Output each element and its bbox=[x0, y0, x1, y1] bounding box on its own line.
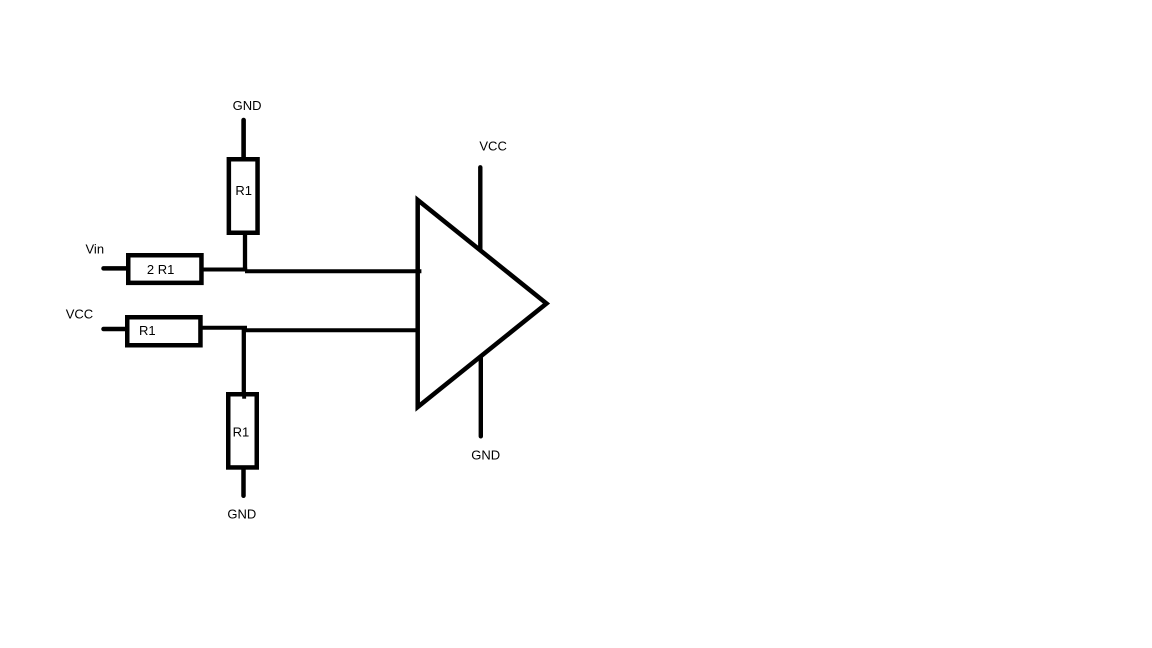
wire from left R1 to node B bbox=[202, 326, 247, 330]
wire from top GND to resistor R1 top bbox=[241, 120, 246, 158]
svg-text:R1: R1 bbox=[235, 183, 252, 198]
svg-text:R1: R1 bbox=[139, 323, 156, 338]
wire Vin stub bbox=[104, 266, 128, 271]
svg-text:2 R1: 2 R1 bbox=[147, 262, 174, 277]
wire from bottom resistor to bottom GND bbox=[241, 469, 246, 496]
svg-text:GND: GND bbox=[233, 98, 262, 113]
svg-text:Vin: Vin bbox=[86, 241, 105, 256]
resistor R1 (horizontal, left) bbox=[127, 317, 200, 345]
wire node B down to bottom resistor bbox=[242, 328, 246, 393]
wire VCC stub bbox=[104, 327, 127, 332]
wire node A to op-amp non-inverting input bbox=[245, 269, 421, 273]
resistor R1 (top vertical) bbox=[229, 159, 258, 233]
op-amp U1 (triangle) bbox=[418, 200, 547, 407]
resistor R1 (bottom vertical) bbox=[228, 394, 257, 467]
svg-text:R1: R1 bbox=[233, 424, 250, 439]
wire from 2 R1 to node A bbox=[203, 268, 247, 272]
svg-text:VCC: VCC bbox=[479, 138, 506, 153]
resistor 2 R1 (horizontal) bbox=[128, 255, 201, 283]
wire VCC supply to op-amp bbox=[478, 167, 482, 250]
svg-text:GND: GND bbox=[471, 448, 500, 463]
wire node B to op-amp inverting input bbox=[244, 328, 418, 332]
svg-text:GND: GND bbox=[227, 506, 256, 521]
wire from R1 top resistor bottom down to node A bbox=[243, 233, 247, 272]
wire op-amp to GND supply bbox=[479, 357, 483, 436]
svg-text:VCC: VCC bbox=[66, 306, 93, 321]
